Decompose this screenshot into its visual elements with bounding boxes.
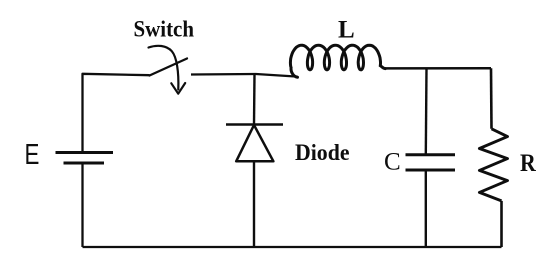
wire: diode bottom lead: [253, 162, 255, 248]
wire: capacitor bottom lead: [425, 170, 427, 247]
capacitor C top plate: [406, 153, 456, 156]
wire: battery positive lead and top-left wire to switch: [83, 74, 150, 153]
switch S1 blade: [150, 59, 188, 76]
inductor L coil: [290, 45, 385, 77]
wire: inductor to top-right corner and capacitor junction: [385, 67, 491, 70]
wire: capacitor top lead: [425, 68, 428, 154]
svg-text:L: L: [338, 17, 355, 44]
svg-text:Diode: Diode: [295, 140, 350, 165]
svg-text:Switch: Switch: [134, 17, 195, 43]
svg-text:R: R: [520, 150, 537, 177]
battery E short plate: [64, 162, 105, 165]
wire: diode top lead: [253, 74, 256, 124]
diode triangle: [236, 125, 273, 161]
wire: bottom rail: [83, 246, 502, 248]
resistor R zigzag: [479, 129, 507, 201]
wire: resistor top lead: [490, 68, 493, 129]
wire: battery negative lead: [81, 163, 83, 247]
wire: resistor bottom lead: [500, 201, 503, 247]
battery E long plate: [56, 151, 114, 154]
svg-text:C: C: [384, 149, 401, 176]
switch actuation arrow: [149, 46, 179, 90]
capacitor C bottom plate: [406, 169, 456, 172]
diode cathode bar: [226, 123, 283, 126]
switch arrowhead: [171, 83, 185, 94]
wire: switch to diode junction to inductor: [191, 74, 298, 77]
svg-text:E: E: [25, 139, 40, 170]
